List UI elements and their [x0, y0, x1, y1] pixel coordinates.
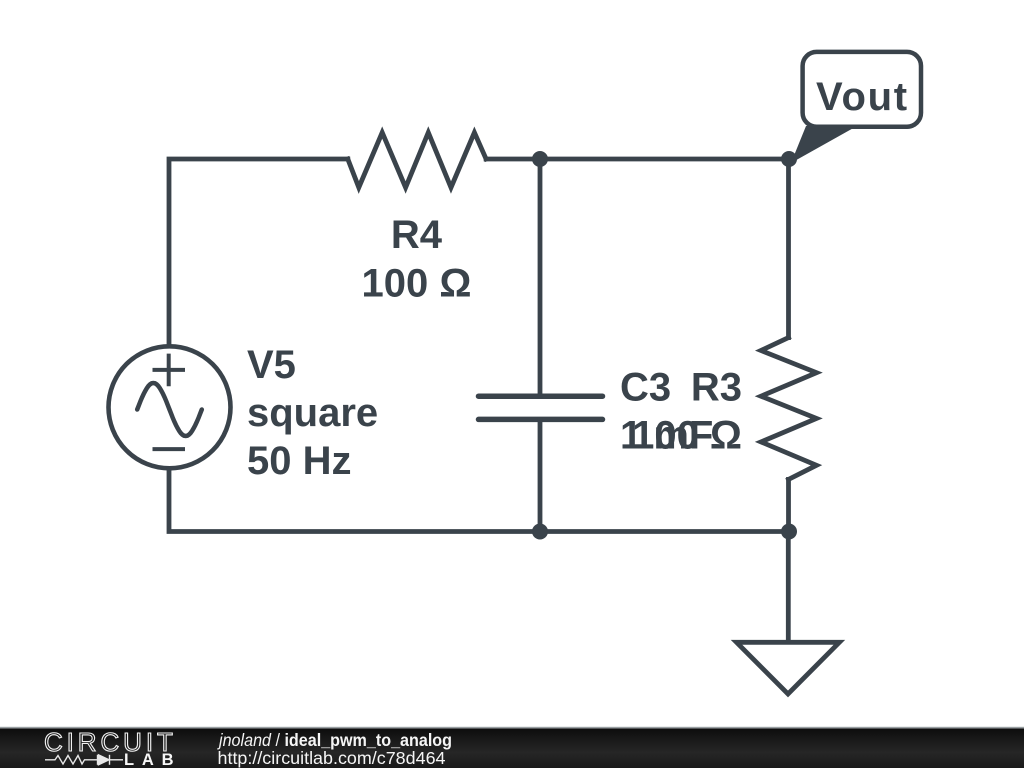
CircuitLab logo resistor-diode squiggle	[45, 755, 123, 765]
source V5 minus sign	[155, 447, 184, 451]
svg-text:50 Hz: 50 Hz	[247, 439, 352, 483]
ground stem	[786, 532, 791, 643]
svg-text:V5: V5	[247, 343, 296, 387]
capacitor C3 top plate	[479, 393, 603, 399]
svg-text:http://circuitlab.com/c78d464: http://circuitlab.com/c78d464	[218, 748, 446, 768]
svg-text:Vout: Vout	[816, 75, 909, 119]
Vout callout box	[803, 52, 921, 127]
svg-text:LAB: LAB	[124, 751, 181, 768]
wire from R4 to Vout node	[486, 157, 789, 162]
capacitor C3 bottom stem	[538, 420, 543, 532]
svg-text:R3: R3	[691, 366, 742, 410]
footer bar	[0, 727, 1024, 729]
wire bottom from source to ground node	[169, 469, 789, 532]
node dot Vout	[781, 151, 797, 167]
capacitor C3 top stem	[538, 159, 543, 396]
svg-text:100 Ω: 100 Ω	[362, 262, 472, 306]
wire top from source to R4	[169, 159, 348, 345]
node dot bottom right	[781, 524, 797, 540]
ground triangle	[737, 642, 840, 694]
svg-text:jnoland / ideal_pwm_to_analog: jnoland / ideal_pwm_to_analog	[217, 730, 452, 750]
wire right vertical from Vout node to R3	[786, 159, 791, 338]
source V5 circle	[109, 346, 231, 468]
capacitor C3 bottom plate	[479, 417, 603, 423]
svg-text:square: square	[247, 391, 378, 435]
Vout callout tail	[791, 126, 857, 163]
resistor R4	[348, 133, 486, 188]
wire from R3 to bottom node	[786, 479, 791, 531]
source V5 sine glyph	[137, 383, 202, 436]
resistor R3	[761, 338, 817, 480]
svg-text:C3: C3	[620, 366, 671, 410]
source V5 plus sign	[155, 356, 184, 385]
svg-text:100 Ω: 100 Ω	[632, 414, 742, 458]
node dot top center	[532, 151, 548, 167]
node dot bottom center	[532, 524, 548, 540]
svg-text:R4: R4	[391, 213, 443, 257]
